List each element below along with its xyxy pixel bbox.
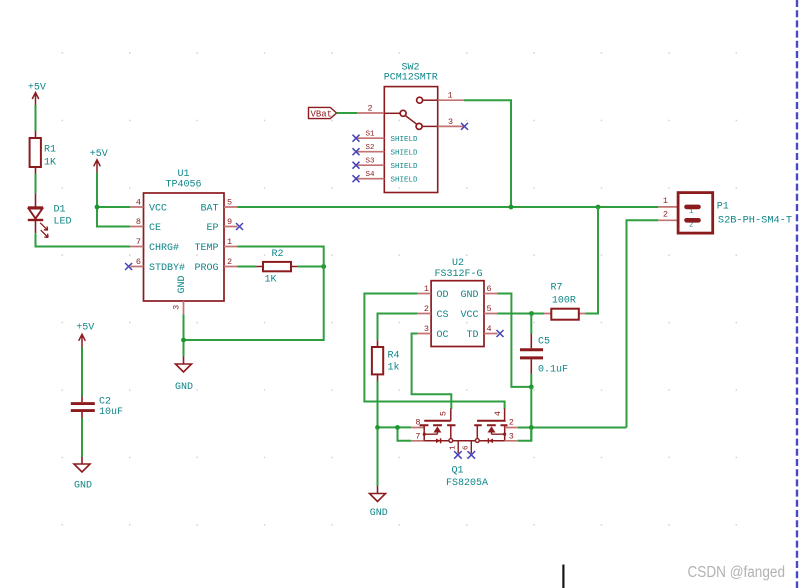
junction R4/GND xyxy=(375,425,380,430)
svg-text:7: 7 xyxy=(136,237,141,247)
wire U2 VCC to R7 xyxy=(498,313,545,315)
svg-text:S2B-PH-SM4-T: S2B-PH-SM4-T xyxy=(718,214,792,226)
wire R1 to D1 xyxy=(35,174,37,193)
svg-text:GND: GND xyxy=(74,481,92,492)
power +5V (above C2) xyxy=(76,323,94,348)
svg-text:OD: OD xyxy=(437,290,449,301)
svg-text:2: 2 xyxy=(424,304,429,314)
junction U1 GND xyxy=(181,338,186,343)
svg-text:GND: GND xyxy=(177,275,188,293)
no-connect X SW2 pin S3 xyxy=(353,162,360,169)
svg-text:SHIELD: SHIELD xyxy=(391,163,419,171)
svg-text:2: 2 xyxy=(509,418,514,428)
svg-text:7: 7 xyxy=(415,431,420,441)
wire U2 GND to C5 bottom xyxy=(498,294,532,387)
svg-text:PROG: PROG xyxy=(194,263,218,274)
svg-text:SHIELD: SHIELD xyxy=(391,136,419,144)
wire Q1 pin3 up to junction xyxy=(518,428,532,441)
no-connect X SW2 pin S4 xyxy=(353,175,360,182)
svg-text:R4: R4 xyxy=(388,350,400,361)
wire C5 to GND junction xyxy=(530,374,532,387)
svg-text:U1: U1 xyxy=(177,169,189,180)
svg-text:1K: 1K xyxy=(264,275,276,286)
IC U2 FS312F-G xyxy=(418,258,498,347)
svg-text:TP4056: TP4056 xyxy=(165,180,201,191)
svg-text:P1: P1 xyxy=(717,202,729,213)
svg-text:10uF: 10uF xyxy=(99,407,123,418)
LED D1 xyxy=(28,193,72,237)
wire Q1 pin2 to P1 pin2 drop xyxy=(518,427,627,429)
wire +5V to VCC and CE xyxy=(97,173,130,227)
svg-text:CSDN @fanged: CSDN @fanged xyxy=(688,564,786,581)
svg-text:+5V: +5V xyxy=(90,149,108,160)
svg-text:VCC: VCC xyxy=(460,310,478,321)
IC U1 TP4056 xyxy=(130,169,237,315)
svg-text:S2: S2 xyxy=(365,144,374,152)
svg-text:LED: LED xyxy=(54,217,72,228)
svg-text:9: 9 xyxy=(227,217,232,227)
svg-text:Q1: Q1 xyxy=(452,466,464,477)
no-connect X pin 9 EP xyxy=(236,223,243,230)
wire junction to GND (Q1) xyxy=(377,427,379,486)
transistor Q1 FS8205A xyxy=(411,409,518,490)
svg-text:GND: GND xyxy=(460,290,478,301)
wire SW2 pin 1 down to BAT net xyxy=(464,100,511,207)
junction Q1 pin2 xyxy=(529,425,534,430)
svg-text:OC: OC xyxy=(437,330,449,341)
power +5V (above R1) xyxy=(28,83,46,107)
svg-text:C5: C5 xyxy=(538,337,550,348)
svg-text:5: 5 xyxy=(227,197,232,207)
svg-text:VBat: VBat xyxy=(311,109,333,119)
wire D1 to U1 pin 7 xyxy=(36,233,131,246)
resistor R7 xyxy=(544,282,586,319)
svg-text:0.1uF: 0.1uF xyxy=(538,365,568,376)
svg-text:3: 3 xyxy=(424,324,429,334)
capacitor C2 xyxy=(71,397,123,419)
svg-text:3: 3 xyxy=(509,431,514,441)
svg-text:2: 2 xyxy=(663,210,668,220)
wire +5V to R1 xyxy=(35,105,37,131)
sheet border dashed xyxy=(796,0,798,588)
wire R4 to GND rail xyxy=(377,381,379,427)
wire TEMP loop to U1 GND xyxy=(184,247,324,341)
svg-text:4: 4 xyxy=(136,197,141,207)
wire PROG to R2 xyxy=(238,266,257,268)
junction VCC/C5 xyxy=(529,311,534,316)
wire U2 CS to R4 xyxy=(378,314,418,341)
svg-text:STDBY#: STDBY# xyxy=(149,263,185,274)
svg-text:PCM12SMTR: PCM12SMTR xyxy=(384,73,438,84)
connector P1 xyxy=(658,193,792,234)
svg-text:6: 6 xyxy=(462,445,470,450)
svg-text:FS312F-G: FS312F-G xyxy=(434,269,482,280)
svg-text:CE: CE xyxy=(149,223,161,234)
no-connect X SW2 pin S1 xyxy=(353,135,360,142)
wire U2 OC to Q1 gate 5 xyxy=(412,334,452,410)
svg-text:6: 6 xyxy=(487,284,492,294)
svg-text:EP: EP xyxy=(206,223,218,234)
no-connect X Q1 pin 1 xyxy=(454,451,462,459)
svg-text:R1: R1 xyxy=(44,145,56,156)
wire P1 pin2 drop xyxy=(627,220,659,427)
svg-text:2: 2 xyxy=(227,257,232,267)
svg-text:VCC: VCC xyxy=(149,204,167,215)
junction R2/TEMP xyxy=(321,264,326,269)
svg-text:CHRG#: CHRG# xyxy=(149,243,179,254)
resistor R2 xyxy=(256,249,297,286)
wire R2 to TEMP net xyxy=(298,266,324,268)
svg-text:U2: U2 xyxy=(452,258,464,269)
svg-text:S4: S4 xyxy=(365,171,375,179)
ground GND (Q1) xyxy=(370,486,388,519)
svg-text:R2: R2 xyxy=(271,249,283,260)
junction C5/GND xyxy=(529,385,534,390)
junction BAT/SW2 xyxy=(509,205,514,210)
no-connect X pin 6 STDBY# xyxy=(125,263,132,270)
svg-text:BAT: BAT xyxy=(200,204,218,215)
wire U1 pin 3 to GND xyxy=(183,315,185,357)
net label VBat xyxy=(309,107,337,119)
wire R4 junction to Q1 pins 8/7 xyxy=(378,427,412,440)
svg-text:8: 8 xyxy=(136,217,141,227)
svg-text:TD: TD xyxy=(466,330,478,341)
svg-text:4: 4 xyxy=(487,324,492,334)
svg-text:D1: D1 xyxy=(54,205,66,216)
capacitor C5 xyxy=(520,314,568,376)
junction BAT/R7 branch xyxy=(596,205,601,210)
svg-text:3: 3 xyxy=(172,305,182,310)
no-connect X SW2 pin 3 xyxy=(461,123,468,130)
ground GND (C2) xyxy=(74,457,92,492)
svg-text:FS8205A: FS8205A xyxy=(446,478,488,489)
svg-text:5: 5 xyxy=(439,411,449,416)
wire +5V to C2 xyxy=(81,347,83,397)
svg-text:1: 1 xyxy=(447,91,452,101)
ground GND (U1) xyxy=(175,357,193,394)
svg-text:+5V: +5V xyxy=(76,323,94,334)
power +5V (above U1) xyxy=(90,149,108,173)
svg-text:SHIELD: SHIELD xyxy=(391,150,419,158)
text caret xyxy=(562,565,564,588)
svg-text:4: 4 xyxy=(493,411,503,416)
svg-text:CS: CS xyxy=(437,310,449,321)
svg-text:1: 1 xyxy=(663,196,668,206)
svg-text:1: 1 xyxy=(424,284,429,294)
no-connect X Q1 pin 6 xyxy=(468,451,476,459)
no-connect X SW2 pin S2 xyxy=(353,148,360,155)
svg-text:SHIELD: SHIELD xyxy=(391,177,419,185)
wire C2 to GND xyxy=(81,418,83,457)
svg-text:2: 2 xyxy=(367,103,372,113)
svg-text:S3: S3 xyxy=(365,158,375,166)
svg-text:TEMP: TEMP xyxy=(194,243,218,254)
svg-text:GND: GND xyxy=(175,382,193,393)
wire BAT branch down to R7 xyxy=(586,207,599,314)
wire VBat to SW2 pin 2 xyxy=(337,112,357,114)
svg-text:6: 6 xyxy=(136,257,141,267)
svg-text:1K: 1K xyxy=(44,158,56,169)
resistor R1 xyxy=(30,131,56,174)
svg-text:GND: GND xyxy=(370,508,388,519)
svg-text:100R: 100R xyxy=(552,296,576,307)
resistor R4 xyxy=(372,340,400,381)
wire BAT net U1 pin5 to P1 pin1 xyxy=(238,206,659,208)
svg-text:+5V: +5V xyxy=(28,83,46,94)
no-connect X U2 pin 4 TD xyxy=(497,330,504,337)
svg-text:S1: S1 xyxy=(365,131,375,139)
junction +5V/VCC xyxy=(95,205,100,210)
svg-text:3: 3 xyxy=(448,117,453,127)
svg-text:5: 5 xyxy=(487,304,492,314)
wire U2 OD to Q1 gate 4 xyxy=(364,294,504,410)
svg-text:1: 1 xyxy=(449,445,457,450)
svg-text:R7: R7 xyxy=(551,282,563,293)
svg-text:1k: 1k xyxy=(388,362,400,374)
junction Q1 source branch xyxy=(395,425,400,430)
wire junction down to Q1 pin2 row xyxy=(530,387,532,441)
svg-text:1: 1 xyxy=(227,237,232,247)
switch SW2 PCM12SMTR xyxy=(357,62,464,192)
